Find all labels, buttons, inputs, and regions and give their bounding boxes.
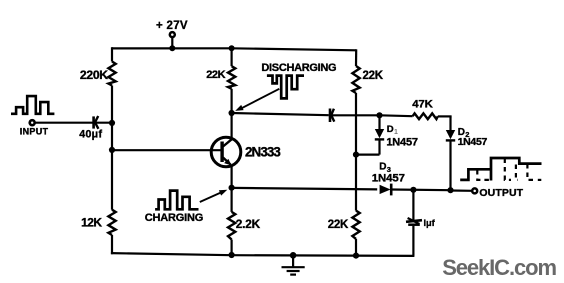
capacitor C3 1uf [406, 220, 422, 222]
svg-text:Iμf: Iμf [424, 218, 436, 228]
svg-text:OUTPUT: OUTPUT [479, 187, 523, 199]
svg-text:40μf: 40μf [79, 129, 102, 141]
wire output [451, 189, 473, 192]
charging waveform [155, 191, 198, 210]
input waveform [11, 96, 54, 114]
resistor 22K right-top [352, 66, 359, 93]
wire emitter row [232, 188, 378, 190]
transistor Q1 2N333 [211, 137, 241, 167]
svg-text:SeekIC.com: SeekIC.com [442, 255, 556, 280]
svg-text:22K: 22K [328, 219, 349, 231]
output waveform dashed [477, 170, 490, 180]
wire left branch lower lead [111, 235, 113, 254]
diode D3 [380, 185, 391, 194]
node D1 top [376, 112, 382, 118]
capacitor C3 1uf branch wire lower [412, 226, 414, 256]
discharging waveform [267, 76, 304, 99]
svg-text:2.2K: 2.2K [236, 217, 261, 231]
svg-text:1N457: 1N457 [372, 173, 405, 185]
resistor 220K [108, 62, 115, 86]
wire collector row left [232, 113, 329, 115]
svg-text:CHARGING: CHARGING [145, 212, 203, 224]
node middle top junction [229, 45, 235, 51]
wire right branch lower lead [355, 239, 357, 256]
wire top supply rail [112, 48, 356, 50]
wire right branch upper lead [355, 49, 357, 66]
svg-text:D: D [379, 162, 386, 173]
svg-text:1N457: 1N457 [458, 136, 488, 148]
node D1 bottom [353, 152, 359, 158]
svg-text:D: D [387, 124, 394, 135]
resistor 12K [108, 210, 115, 235]
svg-text:DISCHARGING: DISCHARGING [261, 62, 336, 74]
svg-text:2N333: 2N333 [245, 145, 280, 160]
node D3 capacitor junction [410, 187, 416, 193]
wire left branch middle [111, 86, 113, 210]
svg-text:12K: 12K [81, 215, 102, 229]
node bottom 2.2K junction [229, 252, 235, 258]
output waveform solid [460, 169, 491, 180]
capacitor C3 1uf branch wire upper [412, 190, 414, 220]
svg-text:1: 1 [394, 129, 398, 136]
svg-text:47K: 47K [412, 99, 433, 111]
wire capacitor to left branch [96, 122, 113, 124]
wire base [112, 149, 222, 151]
diode D1 [378, 115, 380, 129]
wire to 47K [380, 114, 413, 117]
output terminal [472, 188, 477, 193]
wire supply stem [171, 37, 173, 48]
resistor 2.2K [228, 212, 235, 240]
wire 2.2K lower lead [231, 240, 233, 256]
resistor 22K left [228, 66, 235, 89]
wire input to capacitor [35, 122, 93, 124]
wire emitter stub [231, 165, 233, 188]
node emitter [229, 185, 235, 191]
node supply junction [169, 45, 175, 51]
ground [292, 255, 294, 267]
wire collector row right [333, 114, 380, 116]
node bottom ground junction [290, 252, 297, 259]
svg-text:+ 27V: + 27V [156, 20, 188, 32]
svg-text:1N457: 1N457 [386, 136, 417, 148]
wire D1 to right branch [356, 154, 380, 156]
wire bottom rail [111, 253, 415, 256]
capacitor C1 40uf [92, 116, 95, 128]
wire D3 to output node [391, 188, 450, 191]
wire left branch upper lead [111, 47, 113, 61]
node collector [229, 110, 235, 116]
node input junction [109, 120, 115, 126]
arrow discharging to collector node [239, 89, 280, 110]
wire 22K to collector node [231, 89, 233, 113]
svg-text:220K: 220K [80, 68, 108, 82]
resistor 22K right-bottom [352, 211, 359, 239]
input terminal [30, 120, 35, 125]
arrow charging to emitter node [200, 192, 222, 202]
svg-text:INPUT: INPUT [20, 127, 49, 137]
wire collector stub [231, 113, 233, 140]
node bottom 22K junction [353, 253, 359, 259]
diode D2 [449, 116, 451, 130]
svg-text:22K: 22K [363, 70, 384, 82]
node output junction [447, 187, 453, 193]
power terminal +27V [170, 32, 175, 37]
wire 47K to corner [438, 115, 452, 117]
resistor 47K [413, 113, 438, 119]
node base junction [109, 147, 115, 153]
wire middle branch upper lead [231, 48, 233, 66]
capacitor C2 coupling [329, 109, 332, 123]
wire right branch middle [355, 93, 357, 211]
svg-text:22K: 22K [206, 69, 225, 81]
wire emitter to 2.2K [231, 188, 233, 212]
